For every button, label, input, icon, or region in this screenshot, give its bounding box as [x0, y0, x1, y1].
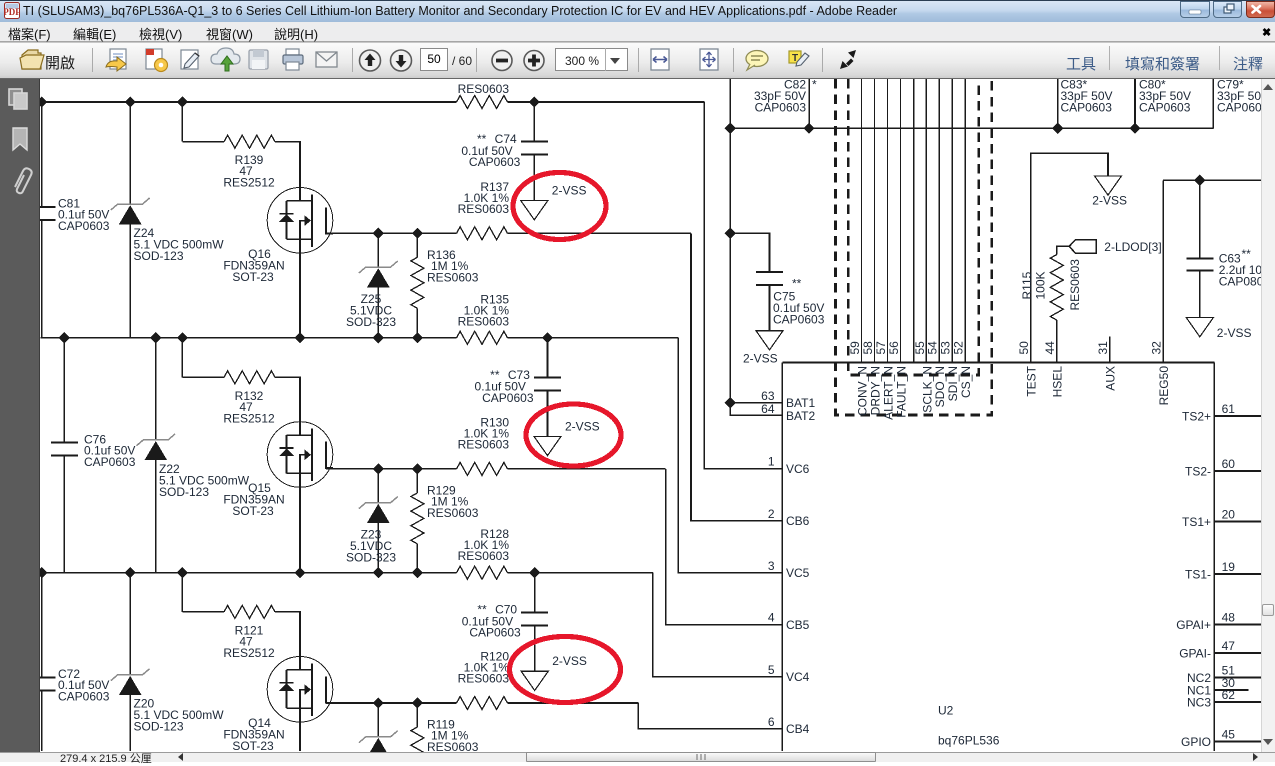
wire gate row left [182, 611, 224, 613]
svg-text:GPIO: GPIO [1181, 735, 1211, 749]
svg-text:CAP0603: CAP0603 [773, 313, 825, 327]
wire pin 48 stub [1214, 624, 1261, 626]
svg-text:RES0603: RES0603 [458, 549, 510, 563]
svg-text:CB4: CB4 [786, 722, 810, 736]
svg-text:CAP0603: CAP0603 [84, 455, 136, 469]
junction R row at 1M resistor [412, 228, 423, 239]
svg-text:58: 58 [861, 341, 875, 355]
svg-text:2-VSS: 2-VSS [1092, 194, 1127, 208]
svg-text:SOD-123: SOD-123 [159, 485, 209, 499]
wire R115 to HSEL pin [1056, 320, 1058, 362]
svg-text:64: 64 [761, 402, 775, 416]
svg-text:57: 57 [874, 341, 888, 355]
transistor Q14 (FDN359AN) circle [267, 657, 333, 723]
paperclip icon [15, 168, 32, 193]
wire C83 column [1057, 79, 1059, 128]
wire BAT1 pin [730, 402, 782, 404]
wire gate row to MOSFET drain [275, 377, 300, 435]
toolbar [0, 42, 1275, 79]
wire R137 row to staircase [508, 232, 692, 234]
junction C82 bus left [725, 123, 736, 134]
capacitor C81 plates [28, 206, 55, 208]
transistor Q16 arrow [305, 215, 312, 226]
bottom status row [0, 752, 1275, 762]
wire flag to R115 [1057, 246, 1069, 254]
fit page icon [700, 49, 718, 70]
svg-text:RES2512: RES2512 [223, 411, 275, 425]
transistor Q16 internals [287, 194, 334, 247]
svg-text:SDI_N: SDI_N [946, 366, 960, 401]
zener Z21 wire lower [377, 751, 379, 757]
zener Z25 wire upper [377, 233, 379, 267]
capacitor C70 wire upper [534, 573, 536, 613]
next page circle button [391, 50, 412, 71]
svg-text:PDF: PDF [4, 7, 20, 17]
svg-text:SOD-123: SOD-123 [134, 720, 184, 734]
transistor Q15 (FDN359AN) circle [267, 422, 333, 488]
resistor R129 wire upper [416, 469, 418, 493]
highlight text icon [789, 51, 809, 66]
wire digital bus line x=952.2 [951, 79, 953, 363]
svg-text:CB6: CB6 [786, 514, 810, 528]
IC U2 top edge [782, 362, 1214, 364]
ground 2-VSS at TEST [1095, 176, 1122, 195]
wire staircase bus2 to VC5 [678, 338, 782, 573]
resistor R120 zigzag [457, 697, 508, 710]
svg-text:RES0603: RES0603 [458, 314, 510, 328]
svg-text:**: ** [792, 277, 802, 291]
junction REG50 rail at C63 [1194, 175, 1205, 186]
svg-text:2-VSS: 2-VSS [565, 419, 600, 433]
capacitor C74 plates [521, 141, 548, 143]
wire gate tap down from bus [181, 102, 183, 142]
svg-text:CAP0603: CAP0603 [755, 101, 807, 115]
resistor R130 zigzag [457, 462, 508, 475]
svg-text:CB5: CB5 [786, 618, 810, 632]
wire C75 tap [730, 233, 769, 272]
svg-text:48: 48 [1222, 611, 1236, 625]
junction at x809 [804, 123, 815, 134]
svg-text:RES0603: RES0603 [458, 202, 510, 216]
svg-text:TS2+: TS2+ [1182, 409, 1211, 423]
zener Z20 wire lower [129, 695, 131, 751]
wire pin 30 stub [1214, 689, 1248, 691]
zener Z21 symbol [359, 731, 398, 743]
svg-text:5: 5 [768, 663, 775, 677]
capacitor C74 wire lower [533, 155, 535, 201]
vertical scrollbar [1261, 79, 1275, 752]
svg-text:RES0603: RES0603 [1068, 259, 1082, 311]
junction on bus at C7x tap [542, 332, 553, 343]
junction on bus at gate tap [177, 567, 188, 578]
junction on bus at cap column [36, 567, 47, 578]
zener Z22 wire lower [155, 460, 157, 573]
junction on bus at 1M resistor column [412, 567, 423, 578]
transistor Q15 body-diode bar [280, 447, 294, 449]
transistor Q15 internals [287, 429, 334, 482]
wire MOSFET source down [299, 239, 301, 338]
dashed box outer [836, 79, 992, 415]
wire bus to staircase [508, 572, 653, 574]
svg-text:59: 59 [848, 341, 862, 355]
annotation red ellipse 1 around 2-VSS [513, 173, 606, 240]
convert doc + star icon [146, 49, 168, 72]
capacitor C73 wire lower [547, 391, 549, 437]
svg-text:2: 2 [768, 507, 775, 521]
svg-text:BAT2: BAT2 [786, 409, 815, 423]
capacitor C73 wire upper [547, 338, 549, 378]
junction R row at 1M resistor [412, 697, 423, 708]
svg-text:100K: 100K [1034, 271, 1048, 299]
wire pin 61 stub [1214, 415, 1261, 417]
pdf icon [4, 2, 20, 19]
svg-text:2-VSS: 2-VSS [552, 184, 587, 198]
resistor R128 on bus [457, 566, 508, 579]
transistor Q14 body-diode triangle [279, 683, 294, 691]
ground 2-VSS under C74 [521, 201, 548, 220]
previous page circle button [360, 50, 381, 71]
svg-text:61: 61 [1222, 402, 1236, 416]
junction C80 on cap bus [1129, 123, 1140, 134]
svg-text:SOT-23: SOT-23 [232, 504, 274, 518]
junction on bus at gate tap [177, 96, 188, 107]
svg-text:GPAI-: GPAI- [1179, 646, 1211, 660]
svg-text:2-VSS: 2-VSS [1217, 326, 1252, 340]
sign/pen icon [181, 50, 199, 69]
junction on bus at zener column [125, 567, 136, 578]
svg-text:RES0603: RES0603 [427, 270, 479, 284]
junction on bus at prev MOSFET source [294, 332, 305, 343]
junction on bus at zener column [125, 96, 136, 107]
transistor Q16 body-diode triangle [279, 214, 294, 222]
wire digital bus line x=926.3 [925, 79, 927, 363]
zener Z24 wire lower [129, 224, 131, 337]
IC U2 right edge [1213, 363, 1215, 752]
svg-text:2-VSS: 2-VSS [743, 352, 778, 366]
junction R row at inner zener [373, 697, 384, 708]
svg-text:CAP0603: CAP0603 [1217, 101, 1261, 115]
svg-text:45: 45 [1222, 728, 1236, 742]
ground 2-VSS under C63 [1186, 318, 1213, 337]
svg-text:HSEL: HSEL [1051, 366, 1065, 398]
junction on bus at cap column [59, 332, 70, 343]
svg-text:RES0603: RES0603 [427, 506, 479, 520]
comment bubble icon [746, 51, 768, 71]
svg-text:GPAI+: GPAI+ [1176, 618, 1211, 632]
wire pin 62 stub [1214, 701, 1261, 703]
svg-text:CONV_N: CONV_N [855, 366, 869, 416]
capacitor C75 plates [756, 271, 783, 273]
capacitor C73 plates [534, 377, 561, 379]
wire pin 47 stub [1214, 652, 1261, 654]
svg-text:2-VSS: 2-VSS [552, 654, 587, 668]
resistor R129 wire lower [416, 544, 418, 574]
wire R137 row [326, 232, 457, 234]
junction on bus at zener column [150, 332, 161, 343]
zener Z20 wire upper [129, 573, 131, 675]
svg-text:1: 1 [768, 455, 775, 469]
junction R row at 1M resistor [412, 463, 423, 474]
page number box [420, 48, 448, 71]
wire REG50 column [1162, 180, 1164, 362]
junction on bus at C7x tap [529, 96, 540, 107]
email envelope icon [316, 52, 337, 67]
svg-text:REG50: REG50 [1157, 366, 1171, 406]
wire digital bus line x=900.5 [900, 79, 902, 363]
svg-text:**: ** [1242, 247, 1252, 261]
Adobe Reader window title bar [0, 0, 1275, 22]
wire top cap bus y=128.8 [730, 127, 1213, 129]
wire cell2 top bus y=338.3 [41, 337, 457, 339]
wire staircase R130 to CB5 [666, 469, 783, 625]
zoom in circle button [524, 51, 544, 71]
svg-text:SOT-23: SOT-23 [232, 270, 274, 284]
wire pin 19 stub [1214, 573, 1261, 575]
wire pin 20 stub [1214, 521, 1261, 523]
svg-text:CS_N: CS_N [959, 366, 973, 398]
wire R120 row to staircase [508, 702, 639, 704]
capacitor C72 wire lower [41, 691, 43, 751]
fullscreen arrows icon [840, 50, 856, 69]
wire MOSFET source down [299, 708, 301, 751]
wire gate row left [182, 141, 224, 143]
net flag 2-LDOD [1069, 240, 1096, 253]
svg-text:U2: U2 [938, 704, 954, 718]
svg-text:44: 44 [1043, 341, 1057, 355]
svg-text:CAP0603: CAP0603 [58, 219, 110, 233]
svg-text:R115: R115 [1020, 271, 1034, 299]
capacitor C70 wire lower [534, 625, 536, 671]
resistor R119 zigzag [411, 727, 424, 766]
svg-text:SOT-23: SOT-23 [232, 739, 274, 752]
wire pin 45 stub [1214, 741, 1261, 743]
zener Z23 wire upper [377, 469, 379, 503]
svg-text:32: 32 [1150, 341, 1164, 355]
zener Z25 wire lower [377, 287, 379, 338]
resistor R119 wire upper [416, 703, 418, 727]
svg-text:62: 62 [1222, 688, 1236, 702]
transistor Q14 arrow [305, 684, 312, 695]
svg-text:SDO_N: SDO_N [933, 366, 947, 407]
capacitor C63 plates [1186, 257, 1213, 259]
save floppy icon (disabled) [249, 50, 268, 69]
menu bar [0, 22, 1275, 42]
svg-text:19: 19 [1222, 560, 1236, 574]
svg-text:53: 53 [939, 341, 953, 355]
svg-text:RES2512: RES2512 [223, 176, 275, 190]
wire gate row left [182, 376, 224, 378]
wire BAT column [729, 128, 731, 415]
wire cell1 top bus y=102.5 [41, 101, 457, 103]
resistor RES0603 on bus [457, 96, 508, 109]
print icon [283, 49, 303, 70]
wire digital bus line x=887.4 [886, 79, 888, 363]
wire pin 51 stub [1214, 677, 1261, 679]
resistor R121 zigzag [224, 605, 275, 618]
svg-text:RES0603: RES0603 [458, 672, 510, 686]
zener Z22 wire upper [155, 338, 157, 440]
junction on bus at inner zener column [373, 567, 384, 578]
zener Z24 wire upper [129, 102, 131, 204]
wire MOSFET source down [299, 473, 301, 573]
svg-text:CAP0603: CAP0603 [1139, 101, 1191, 115]
wire C80 column [1134, 79, 1136, 128]
svg-text:TEST: TEST [1025, 365, 1039, 396]
junction BAT1 [725, 397, 736, 408]
wire pin 60 stub [1214, 470, 1261, 472]
capacitor C76 plates [51, 442, 78, 444]
svg-text:20: 20 [1222, 508, 1236, 522]
junction on bus at inner zener column [373, 332, 384, 343]
svg-text:SCLK_N: SCLK_N [920, 366, 934, 413]
capacitor C81 wire lower [41, 220, 43, 338]
wire gate tap down from bus [181, 573, 183, 612]
resistor R135 on bus [457, 331, 508, 344]
svg-text:2-LDOD[3]: 2-LDOD[3] [1104, 240, 1161, 254]
junction C83 on cap bus [1052, 123, 1063, 134]
wire gate row to MOSFET drain [275, 142, 300, 201]
svg-text:SOD-123: SOD-123 [134, 249, 184, 263]
IC U2 left edge [781, 363, 783, 752]
wire staircase R137 to CB6 [691, 233, 782, 521]
resistor R136 wire lower [416, 308, 418, 338]
zener Z23 symbol [359, 497, 398, 509]
window buttons [1180, 1, 1210, 18]
wire BAT2 pin [730, 403, 782, 416]
junction on bus at 1M resistor column [412, 332, 423, 343]
capacitor C72 plates [28, 677, 55, 679]
zoom out circle button [492, 51, 512, 71]
svg-text:55: 55 [913, 341, 927, 355]
annotation red ellipse 3 around 2-VSS [510, 637, 621, 703]
svg-text:FAULT_N: FAULT_N [895, 366, 909, 418]
junction on bus at C7x tap [529, 567, 540, 578]
zoom box [555, 48, 628, 71]
svg-text:SOD-323: SOD-323 [346, 315, 396, 329]
svg-text:RES0603: RES0603 [427, 740, 479, 752]
dashed box inner [848, 79, 978, 375]
zener Z25 symbol [359, 261, 398, 273]
wire x809 column from top [808, 79, 810, 128]
resistor R136 zigzag [411, 257, 424, 308]
junction R row at inner zener [373, 228, 384, 239]
svg-text:RES2512: RES2512 [223, 646, 275, 660]
svg-text:RES0603: RES0603 [458, 437, 510, 451]
svg-text:RES0603: RES0603 [458, 82, 510, 96]
capacitor C76 wire upper [63, 338, 65, 443]
wire C63 lower [1199, 270, 1201, 317]
sidebar [0, 79, 40, 752]
svg-text:60: 60 [1222, 457, 1236, 471]
resistor R136 wire upper [416, 233, 418, 257]
svg-text:6: 6 [768, 715, 775, 729]
wire digital bus line x=965.2 [964, 79, 966, 363]
resistor R139 zigzag [224, 135, 275, 148]
transistor Q14 internals [287, 663, 334, 716]
resistor R129 zigzag [411, 493, 424, 544]
wire cell3 top bus y=573.2 [41, 572, 457, 574]
wire bus to staircase [508, 101, 705, 103]
svg-text:47: 47 [1222, 639, 1236, 653]
wire digital bus line x=913.6 [913, 79, 915, 363]
ground 2-VSS under C73 [534, 436, 561, 455]
wire C63 upper [1199, 180, 1201, 258]
capacitor C70 plates [521, 611, 548, 613]
zener Z22 symbol [136, 434, 175, 446]
junction on bus at prev MOSFET source [294, 567, 305, 578]
wire gate row to MOSFET drain [275, 612, 300, 670]
svg-text:52: 52 [952, 341, 966, 355]
svg-text:CAP0805: CAP0805 [1219, 275, 1261, 289]
transistor Q15 body-diode triangle [279, 449, 294, 457]
ground 2-VSS under C70 [521, 671, 548, 690]
wire gate tap down from bus [181, 338, 183, 378]
capacitor C81 wire upper [41, 102, 43, 207]
capacitor C74 wire upper [533, 102, 535, 142]
open folder icon [20, 50, 44, 69]
fit width icon [651, 49, 669, 70]
svg-text:CAP0603: CAP0603 [469, 626, 521, 640]
wire AUX stub [1109, 337, 1111, 363]
junction on bus at gate tap [177, 332, 188, 343]
zener Z23 wire lower [377, 523, 379, 574]
ground 2-VSS under C75 [756, 331, 783, 350]
wire staircase R120 to CB4 [638, 703, 782, 729]
svg-text:ALERT_N: ALERT_N [881, 366, 895, 420]
svg-text:4: 4 [768, 611, 775, 625]
junction on bus at cap column [36, 96, 47, 107]
svg-text:bq76PL536: bq76PL536 [938, 734, 1000, 748]
transistor Q16 body-diode bar [280, 213, 294, 215]
svg-text:CAP0603: CAP0603 [469, 155, 521, 169]
capacitor C76 wire lower [63, 456, 65, 574]
svg-text:AUX: AUX [1104, 366, 1118, 391]
wire staircase bus3 to VC4 [653, 573, 783, 677]
svg-text:CAP0603: CAP0603 [58, 690, 110, 704]
zener Z21 wire upper [377, 703, 379, 737]
svg-text:TS2-: TS2- [1185, 464, 1211, 478]
svg-text:3: 3 [768, 559, 775, 573]
svg-text:56: 56 [887, 341, 901, 355]
resistor R115 zigzag [1050, 255, 1063, 321]
junction R row at inner zener [373, 463, 384, 474]
capacitor C72 wire upper [41, 573, 43, 678]
transistor Q15 arrow [305, 450, 312, 461]
wire C79 column [1212, 79, 1214, 128]
junction BAT column at C75 tap [725, 228, 736, 239]
resistor R132 zigzag [224, 371, 275, 384]
wire staircase bus1 to VC6 [704, 102, 782, 469]
wire C75 lower [769, 285, 771, 331]
svg-text:CAP0603: CAP0603 [482, 391, 534, 405]
zener Z24 symbol [111, 198, 150, 210]
transistor Q14 body-diode bar [280, 682, 294, 684]
svg-text:VC5: VC5 [786, 566, 810, 580]
wire bus to staircase [508, 337, 679, 339]
wire R130 row to staircase [508, 468, 666, 470]
svg-text:VC4: VC4 [786, 670, 810, 684]
wire digital bus line x=861.4 [860, 79, 862, 363]
wire C82 column from top [729, 79, 731, 128]
zener Z20 symbol [111, 669, 150, 681]
wire REG50 rail [1163, 179, 1261, 181]
svg-text:*: * [812, 79, 817, 92]
svg-text:DRDY_N: DRDY_N [868, 366, 882, 415]
svg-text:50: 50 [1017, 341, 1031, 355]
bookmark icon [13, 128, 27, 150]
wire digital bus line x=874.4 [873, 79, 875, 363]
transistor Q16 (FDN359AN) circle [267, 188, 333, 254]
